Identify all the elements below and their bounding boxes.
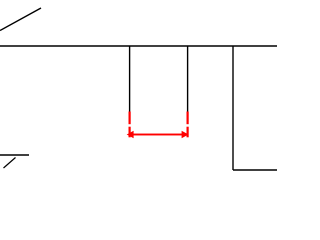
right slit edge (vertical): [187, 46, 189, 112]
left slit edge (vertical): [129, 46, 131, 112]
surface line (top horizontal): [0, 45, 277, 47]
bottom-left ledge: [0, 154, 29, 156]
bottom-left hatch tick: [4, 158, 16, 169]
red dimension arrow (double-headed): [127, 131, 189, 138]
right wall vertical: [232, 46, 234, 170]
bottom-right ledge: [233, 169, 277, 171]
incline (top-left diagonal): [0, 8, 41, 31]
red extension line right (dashed): [187, 112, 189, 138]
red extension line left (dashed): [129, 112, 131, 138]
